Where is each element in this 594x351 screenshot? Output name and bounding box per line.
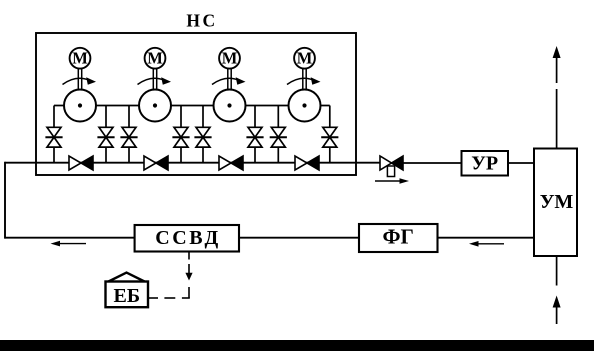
shaft of unit 2 xyxy=(153,68,156,91)
box FG xyxy=(359,224,438,252)
shaft of unit 1 xyxy=(78,68,81,91)
motor M4 xyxy=(294,48,315,69)
svg-text:ССВД: ССВД xyxy=(155,227,221,249)
rotation arrow of unit 3 xyxy=(212,77,246,85)
wire pipe drop 6 xyxy=(254,106,256,163)
discharge wire to UR xyxy=(403,162,462,164)
return wire SSVD to FG xyxy=(239,237,359,239)
suction/discharge header wire xyxy=(54,105,330,107)
box SSVD xyxy=(135,225,239,252)
motor M2 xyxy=(145,48,166,69)
pump P4 xyxy=(289,90,321,122)
shaft of unit 4 xyxy=(303,68,306,91)
svg-text:ФГ: ФГ xyxy=(382,224,413,248)
wire pipe drop 5 xyxy=(202,106,204,163)
flow arrow to UR xyxy=(375,178,409,184)
return wire left segment xyxy=(5,237,135,239)
check valve 4 on manifold xyxy=(295,156,319,170)
svg-text:УР: УР xyxy=(471,153,498,175)
signal arrowhead down xyxy=(185,273,192,281)
svg-text:НС: НС xyxy=(186,11,217,31)
gate valve 1 xyxy=(45,127,62,147)
box UM xyxy=(534,149,577,257)
box UR xyxy=(462,151,509,176)
dashed signal wire to EB xyxy=(149,297,190,299)
tank EB (house) xyxy=(106,273,149,308)
wire above UM xyxy=(556,89,558,149)
svg-text:М: М xyxy=(297,49,313,68)
pump P2 xyxy=(139,90,171,122)
motor M1 xyxy=(70,48,91,69)
wire pipe drop 1 xyxy=(53,106,55,163)
left riser wire xyxy=(4,162,6,239)
gate valve 3 xyxy=(120,127,137,147)
check valve 1 on manifold xyxy=(69,156,93,170)
outflow arrow (top) xyxy=(553,46,561,83)
svg-text:ЕБ: ЕБ xyxy=(114,285,141,307)
return wire UM to FG xyxy=(438,237,535,239)
caption bar xyxy=(0,340,594,351)
svg-text:М: М xyxy=(147,49,163,68)
gate valve 7 xyxy=(270,127,287,147)
pump P1 xyxy=(64,90,96,122)
check valve 3 on manifold xyxy=(219,156,243,170)
svg-text:М: М xyxy=(72,49,88,68)
wire pipe drop 3 xyxy=(128,106,130,163)
rotation arrow of unit 2 xyxy=(138,77,172,85)
flow arrow to riser xyxy=(51,241,87,247)
shaft of unit 3 xyxy=(228,68,231,91)
enclosure box NS (pump station) xyxy=(36,33,356,175)
gate valve 5 xyxy=(194,127,211,147)
main check valve (outside) xyxy=(380,156,403,170)
rotation arrow of unit 4 xyxy=(287,77,321,85)
motor M3 xyxy=(219,48,240,69)
inflow arrow (bottom) xyxy=(553,296,561,325)
wire pipe drop 4 xyxy=(180,106,182,163)
svg-text:УМ: УМ xyxy=(540,191,574,213)
rotation arrow of unit 1 xyxy=(63,77,97,85)
common manifold wire xyxy=(5,162,381,164)
gate valve 6 xyxy=(246,127,263,147)
actuator box of main check valve xyxy=(387,166,394,177)
svg-text:М: М xyxy=(222,49,238,68)
dashed signal wire SSVD down xyxy=(188,252,190,299)
wire pipe drop 2 xyxy=(105,106,107,163)
gate valve 8 xyxy=(321,127,338,147)
wire pipe drop 8 xyxy=(329,106,331,163)
wire below UM xyxy=(556,256,558,286)
svg-text:Рис. 3.1. Функциональная схема: Рис. 3.1. Функциональная схема системы С… xyxy=(184,340,410,351)
flow arrow to FG xyxy=(469,241,504,247)
pump P3 xyxy=(214,90,246,122)
check valve 2 on manifold xyxy=(144,156,168,170)
gate valve 2 xyxy=(97,127,114,147)
gate valve 4 xyxy=(172,127,189,147)
wire pipe drop 7 xyxy=(277,106,279,163)
wire UR to UM xyxy=(508,162,534,164)
